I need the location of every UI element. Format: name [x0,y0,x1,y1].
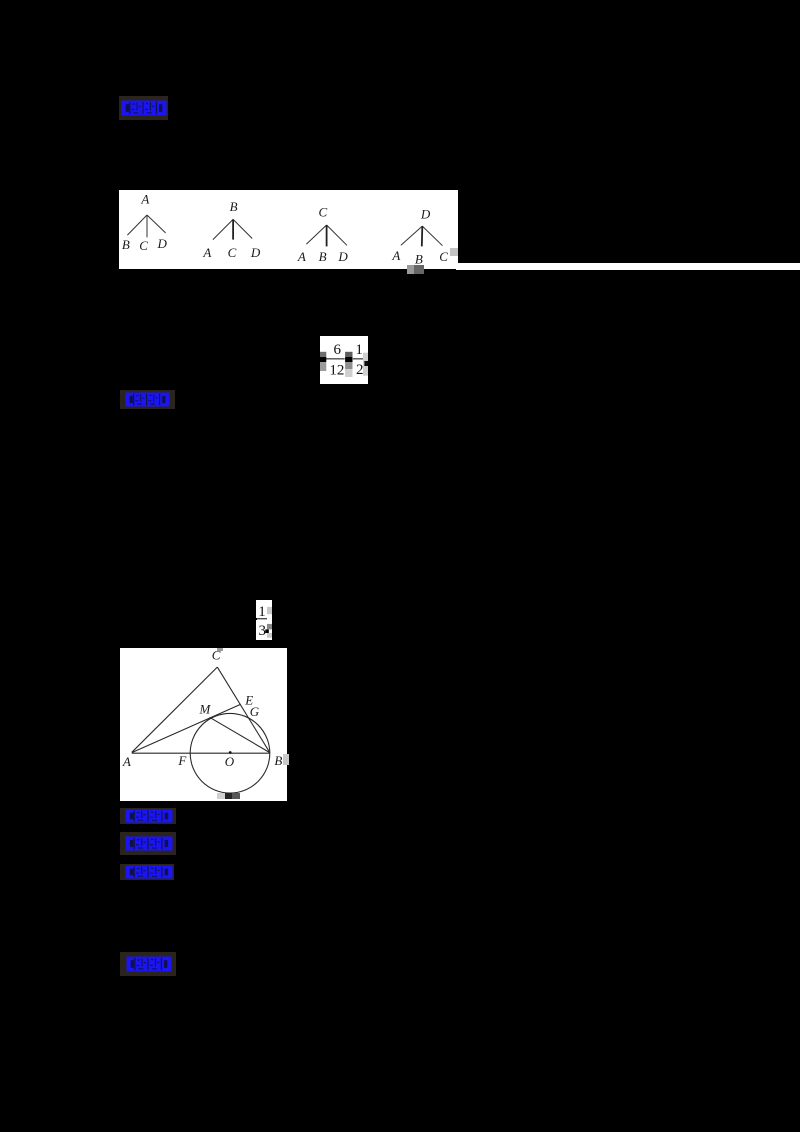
svg-text:A: A [202,245,211,260]
svg-text:C: C [139,238,148,253]
svg-text:F: F [177,753,187,768]
svg-text:C: C [439,249,448,264]
svg-text:B: B [122,237,130,252]
svg-text:B: B [274,753,282,768]
svg-text:2: 2 [356,362,364,378]
svg-text:3: 3 [258,623,266,639]
svg-text:D: D [337,249,348,264]
svg-text:A: A [122,754,131,769]
svg-text:M: M [198,701,211,716]
svg-text:O: O [225,754,235,769]
svg-text:D: D [420,207,431,222]
svg-text:D: D [250,245,261,260]
svg-text:B: B [319,249,327,264]
svg-text:12: 12 [329,362,344,378]
svg-text:A: A [140,191,149,206]
svg-text:6: 6 [334,342,342,358]
svg-text:D: D [157,236,168,251]
svg-text:A: A [297,249,306,264]
svg-text:1: 1 [258,604,266,620]
svg-text:1: 1 [355,342,363,358]
svg-text:C: C [228,245,237,260]
svg-text:C: C [318,204,327,219]
svg-text:A: A [391,248,400,263]
svg-text:G: G [250,704,260,719]
svg-text:B: B [230,199,238,214]
